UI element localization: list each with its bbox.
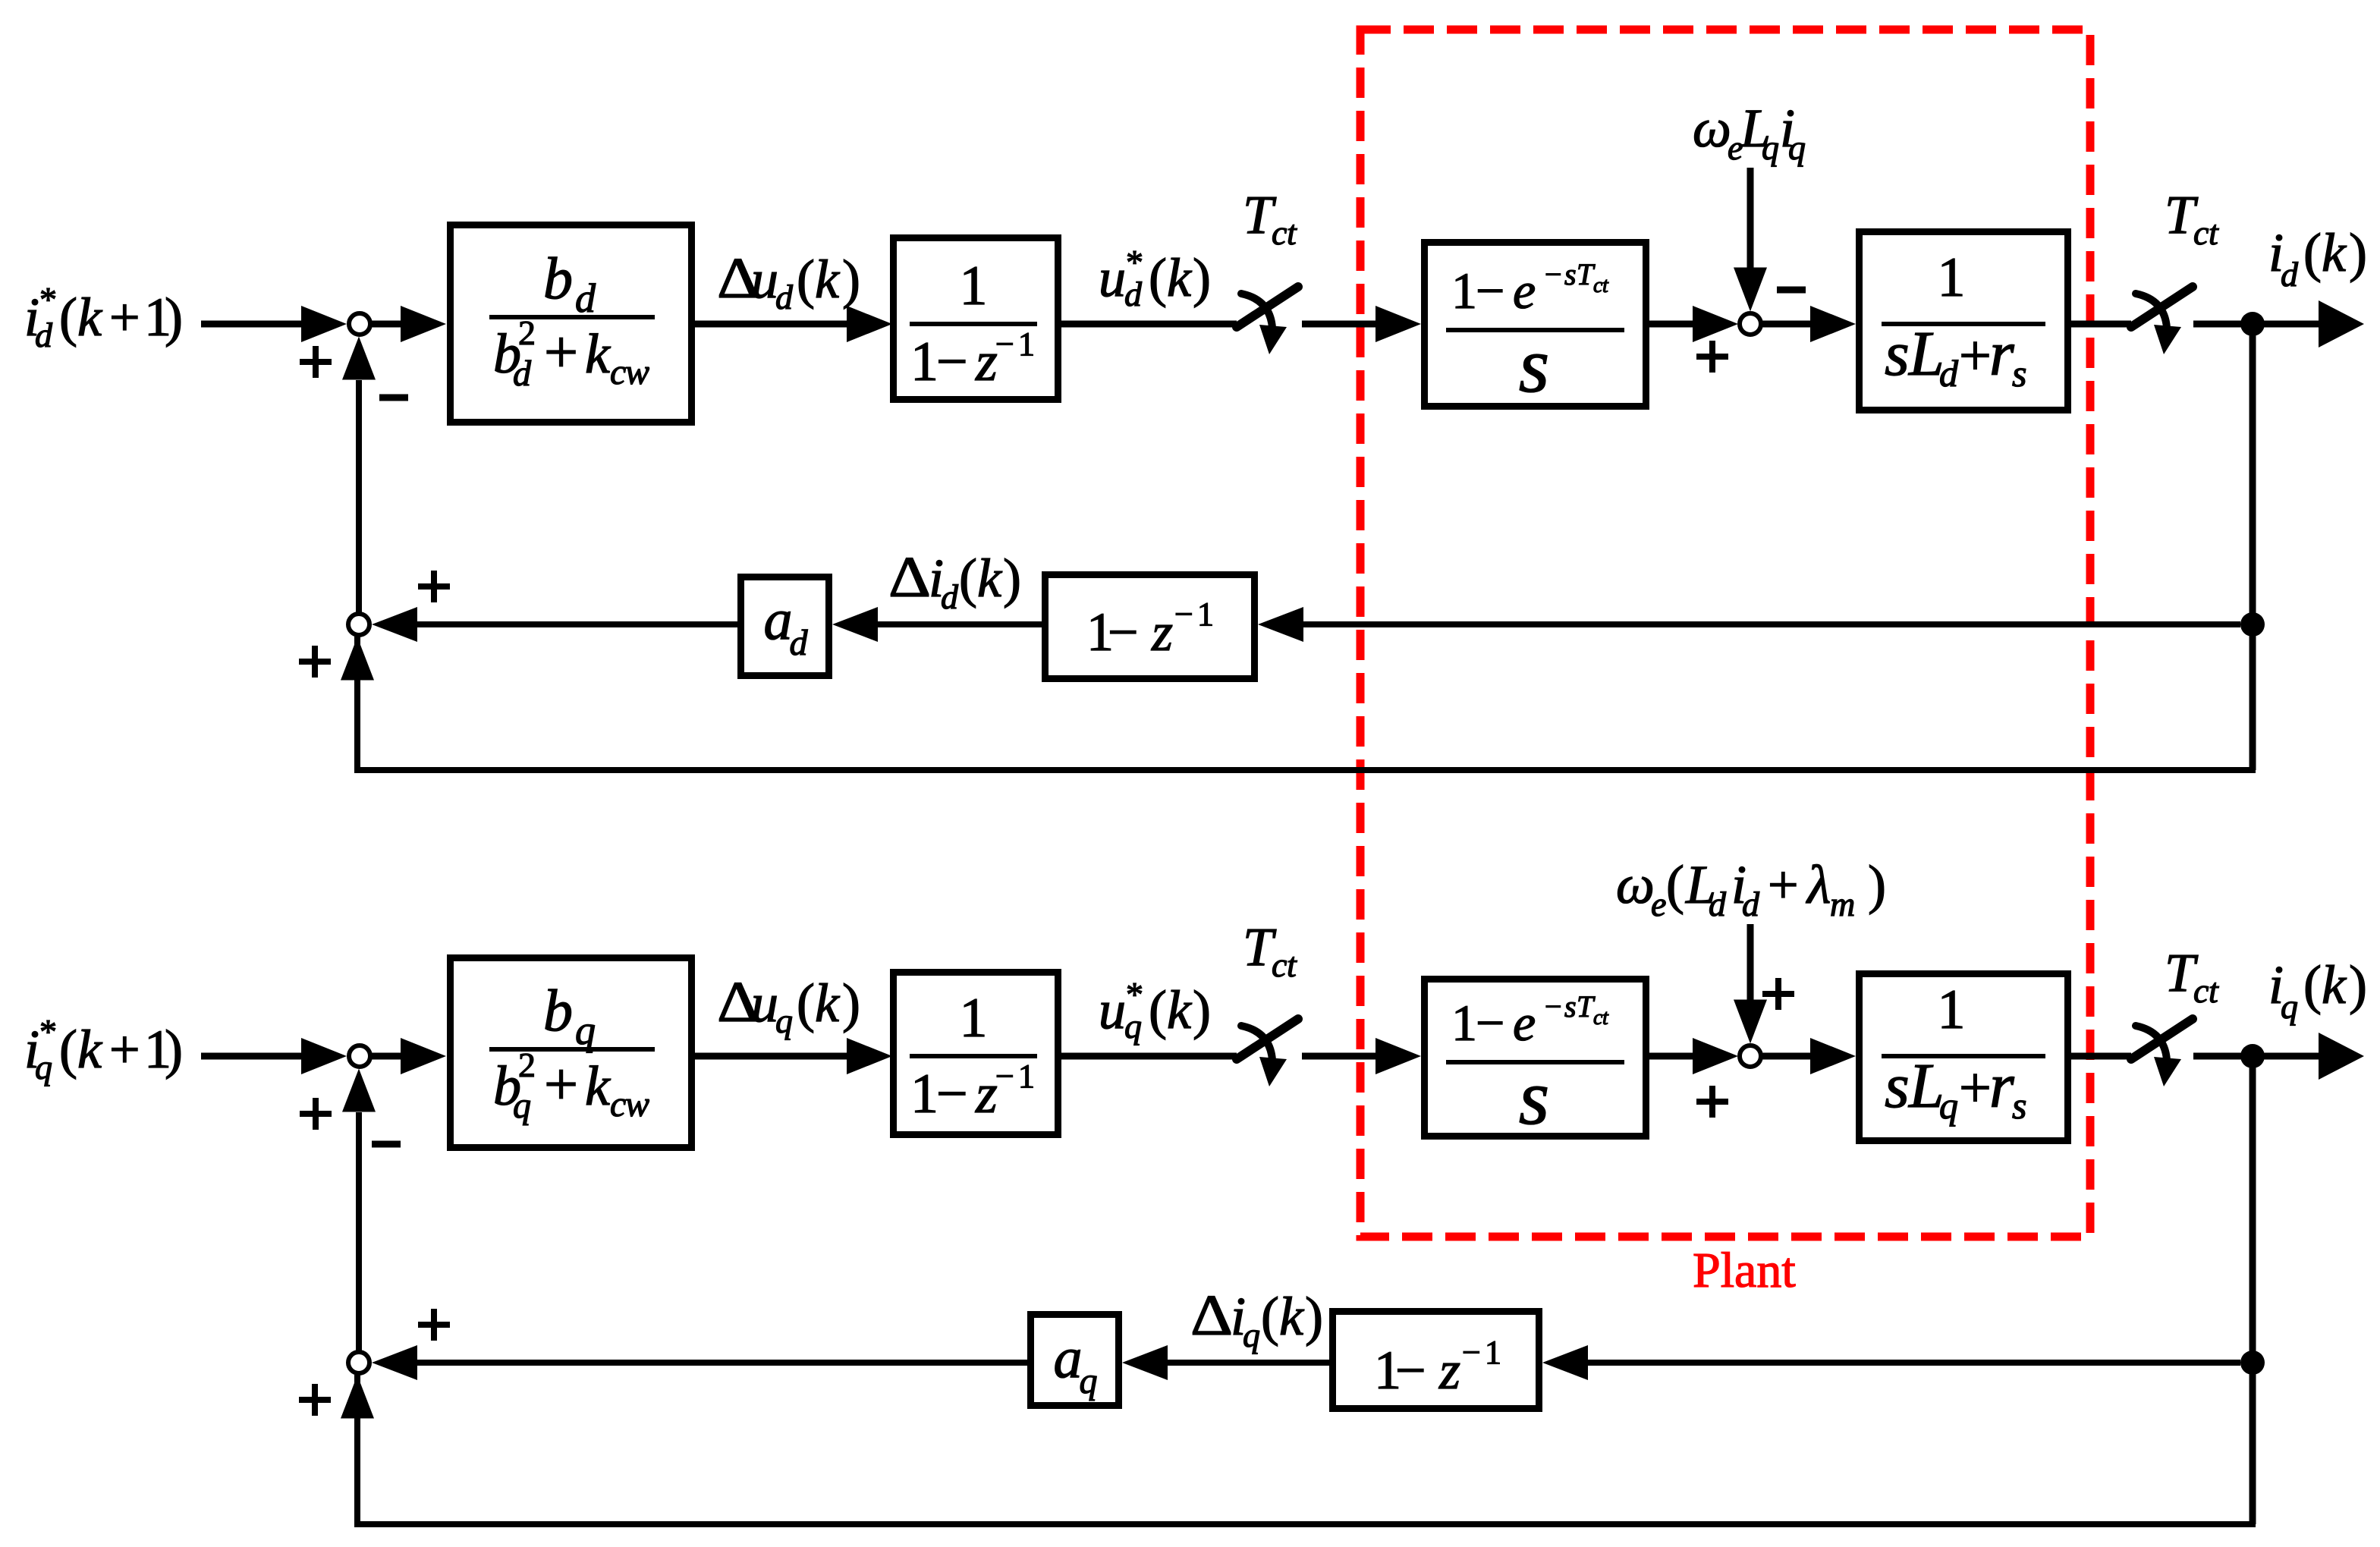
svg-text:(: ( [797,973,815,1033]
svg-text:c: c [2193,213,2209,252]
svg-text:e: e [1513,262,1536,319]
svg-text:d: d [775,278,794,316]
svg-text:c: c [610,1084,626,1124]
wire: bottom rail horizontal [354,1521,2256,1527]
summing junction S2d (disturbance) [1740,313,1761,335]
wire: gain a to summing junction S3 [416,621,737,627]
svg-text:d: d [575,275,596,321]
block G2d: 1/(1-z^-1) [894,238,1058,400]
svg-text:q: q [513,1086,531,1126]
svg-text:1: 1 [1485,1334,1501,1371]
sampler switch SW1q [1237,1019,1298,1086]
plus sign at S1d input [300,346,332,378]
svg-text:1: 1 [1018,325,1035,363]
sampler switch SW1d [1237,287,1298,354]
svg-text:): ) [1193,247,1211,308]
svg-text:d: d [1742,885,1760,923]
svg-text:−: − [936,1063,968,1125]
block G4q: 1/(sL_q+r_s) [1860,974,2068,1141]
svg-text:d: d [790,623,809,663]
svg-text:λ: λ [1806,854,1831,915]
svg-text:1: 1 [1018,1058,1035,1095]
svg-text:u: u [1099,247,1126,308]
svg-text:t: t [1287,213,1297,252]
svg-text:d: d [513,354,532,394]
svg-text:s: s [1519,1054,1549,1141]
svg-text:c: c [2193,971,2209,1010]
svg-text:1: 1 [1197,596,1214,633]
svg-text:): ) [2349,222,2367,283]
output node dot Nd [2240,312,2265,336]
svg-text:+: + [1959,324,1992,388]
svg-text:ω: ω [1693,98,1731,159]
plus sign above S3 input [418,1309,450,1341]
svg-text:+: + [544,319,578,386]
svg-text:a: a [764,588,793,652]
summing junction S2q (disturbance) [1740,1045,1761,1067]
svg-text:a: a [1054,1326,1083,1390]
svg-text:t: t [2209,213,2219,252]
svg-text:k: k [77,287,103,347]
svg-text:u: u [751,973,778,1033]
svg-text:+: + [1959,1056,1992,1120]
wire: sampler to ZOH block [1302,321,1378,328]
svg-text:t: t [1287,945,1297,984]
svg-text:*: * [39,1012,57,1051]
svg-text:t: t [1602,1006,1609,1030]
svg-text:1: 1 [960,255,988,317]
svg-text:k: k [1167,247,1193,308]
svg-text:(: ( [1149,979,1167,1040]
svg-text:q: q [1243,1316,1260,1354]
wire: gain a to summing junction S3 [416,1360,1027,1366]
svg-text:q: q [2281,987,2298,1026]
block G3d: ZOH (1-e^-sTct)/s [1425,243,1646,407]
summing junction S1q [349,1045,370,1067]
wire: node Nd vertical down [2250,335,2256,770]
feedback junction dot [2240,612,2265,637]
svg-text:k: k [585,323,611,385]
svg-text:ω: ω [1616,854,1655,915]
wire: ZOH to disturbance summing junction [1649,1053,1695,1060]
svg-text:z: z [1438,1340,1460,1401]
svg-text:): ) [1003,548,1021,608]
wire: node Nq vertical down [2250,1067,2256,1524]
svg-text:(: ( [959,548,977,608]
svg-text:+: + [1768,854,1799,915]
output arrow i_q(k) [2264,1053,2320,1060]
wire: G2 to sampler [1061,321,1237,328]
svg-text:−: − [1545,989,1562,1023]
svg-text:q: q [35,1048,52,1086]
svg-text:1: 1 [1938,247,1966,309]
wire: difference block to gain a [1166,1360,1329,1366]
svg-text:−: − [1476,994,1504,1052]
svg-text:k: k [2322,222,2347,283]
wire: input to summing junction [201,321,303,328]
svg-text:k: k [2322,954,2347,1015]
svg-text:Δ: Δ [1190,1284,1233,1347]
wire: output sampler to node [2193,1053,2246,1060]
svg-text:Plant: Plant [1693,1243,1796,1298]
svg-text:+: + [109,287,140,347]
svg-text:k: k [977,548,1003,608]
svg-text:q: q [575,1008,596,1053]
summing junction S1d [349,313,370,335]
block a_q (gain) [1031,1315,1119,1406]
wire: S2q to plant block [1762,1053,1812,1060]
wire: bottom rail vertical into S3 [354,1375,360,1527]
wire: S2d to plant block [1762,321,1812,328]
svg-text:k: k [1279,1286,1305,1347]
svg-text:−: − [995,325,1014,363]
sampler switch SW2d [2131,287,2193,354]
svg-text:r: r [1989,1051,2014,1121]
wire: S1q to controller block [372,1053,402,1060]
svg-text:k: k [77,1019,103,1080]
svg-text:): ) [165,1019,183,1080]
output node dot Nq [2240,1044,2265,1068]
wire: feedback to difference block [1302,621,2240,627]
plus sign left of S3 lower input [299,646,331,678]
svg-text:t: t [2209,971,2219,1010]
svg-text:t: t [1602,274,1609,297]
block G4d: 1/(sL_d+r_s) [1860,232,2068,410]
svg-text:s: s [2012,1084,2026,1127]
output arrow i_d(k) [2264,321,2320,328]
wire: disturbance into S2 [1747,924,1754,1001]
block G2q: 1/(1-z^-1) [894,973,1058,1135]
summing junction S3d [348,614,369,635]
svg-text:−: − [1174,596,1193,633]
svg-text:−: − [936,331,968,393]
svg-text:(: ( [2303,954,2322,1015]
plus sign above S3 input [418,571,450,602]
svg-text:1: 1 [1938,979,1966,1041]
wire: bottom rail vertical into S3 [354,637,360,773]
svg-text:k: k [585,1055,611,1118]
block a_d (gain) [741,577,829,676]
svg-text:−: − [1476,262,1504,319]
wire: G2 to sampler [1061,1053,1237,1060]
svg-text:+: + [544,1052,578,1118]
wire: S3 up to S1 (with arrow) [356,1112,362,1350]
plant boundary (red dashed box) [1360,30,2090,1237]
svg-text:m: m [1830,885,1855,923]
wire: plant block to output sampler [2071,321,2131,328]
plus sign at disturbance input [1762,978,1794,1010]
sampler switch SW2q [2131,1019,2193,1086]
minus sign at S1d feedback input [379,395,408,401]
svg-text:e: e [1513,994,1536,1052]
block 1-z^-1 (difference) [1333,1312,1539,1409]
wire: difference block to gain a [876,621,1042,627]
wire: S3 up to S1 (with arrow) [356,380,362,612]
feedback junction dot [2240,1350,2265,1375]
svg-text:z: z [975,331,998,393]
svg-text:s: s [1885,1051,1910,1121]
wire: G1 to accumulator block [695,1053,848,1060]
svg-text:q: q [1788,128,1806,167]
plus sign at S2 left input [1696,341,1728,373]
svg-text:d: d [1709,885,1727,923]
svg-text:z: z [1151,602,1173,662]
plus sign left of S3 lower input [299,1384,331,1416]
wire: ZOH to disturbance summing junction [1649,321,1695,328]
svg-text:2: 2 [518,313,536,352]
svg-text:d: d [1939,352,1959,395]
svg-text:q: q [1080,1361,1098,1401]
svg-text:1: 1 [910,1063,938,1125]
svg-text:d: d [2281,255,2299,294]
svg-text:): ) [2349,954,2367,1015]
svg-text:q: q [1124,1007,1142,1045]
block G3q: ZOH (1-e^-sTct)/s [1425,979,1646,1137]
svg-text:k: k [815,973,841,1033]
svg-text:2: 2 [518,1045,536,1084]
svg-text:q: q [775,1001,793,1040]
svg-text:c: c [1272,213,1287,252]
svg-text:k: k [815,249,841,310]
svg-text:): ) [842,249,860,310]
svg-text:c: c [1272,945,1287,984]
svg-text:1: 1 [1451,994,1477,1052]
wire: sampler to ZOH block [1302,1053,1378,1060]
svg-text:r: r [1989,319,2014,389]
svg-text:*: * [39,280,57,319]
svg-text:): ) [165,287,183,347]
svg-text:1: 1 [910,331,938,393]
block 1-z^-1 (difference) [1045,575,1255,679]
svg-text:u: u [751,249,778,310]
svg-text:(: ( [1149,247,1167,308]
svg-text:1: 1 [960,987,988,1049]
svg-text:k: k [1167,979,1193,1040]
svg-text:Δ: Δ [888,546,931,609]
svg-text:−: − [1545,257,1562,291]
svg-text:−: − [1462,1334,1481,1371]
svg-text:s: s [1519,322,1549,409]
svg-text:−: − [1395,1340,1426,1401]
svg-text:s: s [1885,319,1910,389]
svg-text:d: d [35,316,53,354]
minus sign at disturbance input [1777,287,1806,294]
svg-text:(: ( [1666,854,1684,915]
svg-text:): ) [842,973,860,1033]
svg-text:(: ( [797,249,815,310]
svg-text:): ) [1305,1286,1323,1347]
block G1d: b_d/(b_d^2+k_cw) [451,225,692,423]
wire: bottom rail horizontal [354,767,2256,773]
svg-text:(: ( [1261,1286,1279,1347]
svg-text:(: ( [59,1019,77,1080]
block G1q: b_q/(b_q^2+k_cw) [451,958,692,1148]
wire: S1d to controller block [372,321,402,328]
plus sign at S1q input [300,1098,332,1130]
wire: disturbance into S2 [1747,168,1754,269]
wire: feedback to difference block [1586,1360,2240,1366]
summing junction S3q [348,1352,369,1373]
svg-text:): ) [1193,979,1211,1040]
svg-text:+: + [109,1019,140,1080]
svg-text:u: u [1099,979,1126,1040]
svg-text:c: c [610,352,626,392]
svg-text:z: z [975,1063,998,1125]
wire: output sampler to node [2193,321,2246,328]
svg-text:s: s [1564,989,1577,1023]
wire: input to summing junction [201,1053,303,1060]
svg-text:e: e [1651,885,1666,923]
wire: plant block to output sampler [2071,1053,2131,1060]
svg-text:w: w [625,352,649,392]
svg-text:q: q [1762,128,1779,167]
svg-text:(: ( [2303,222,2322,283]
svg-text:w: w [625,1084,649,1124]
svg-text:1: 1 [1451,262,1477,319]
svg-text:d: d [941,577,959,616]
svg-text:b: b [543,245,573,311]
minus sign at S1q feedback input [372,1141,401,1148]
svg-text:s: s [1564,257,1577,291]
svg-text:b: b [543,977,573,1043]
svg-text:): ) [1868,854,1886,915]
svg-text:−: − [1108,602,1139,662]
wire: G1 to accumulator block [695,321,848,328]
plus sign at S2 left input [1696,1086,1728,1118]
svg-text:d: d [1124,275,1143,313]
svg-text:q: q [1939,1084,1958,1127]
svg-text:(: ( [59,287,77,347]
svg-text:−: − [995,1058,1014,1095]
svg-text:s: s [2012,352,2026,395]
